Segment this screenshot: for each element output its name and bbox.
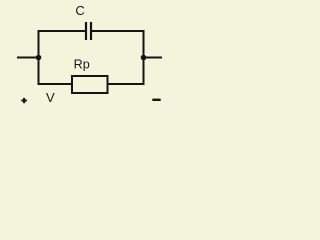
svg-text:C: C <box>75 3 84 18</box>
wire: left terminal stub <box>17 57 39 59</box>
wire: right vertical branch <box>143 30 145 85</box>
junction node left <box>36 55 42 61</box>
capacitor C <box>86 22 91 40</box>
wire: bottom rail right segment <box>108 83 145 85</box>
wire: right terminal stub <box>144 57 163 59</box>
svg-text:Rp: Rp <box>74 58 90 72</box>
wire: left vertical branch <box>38 30 40 85</box>
wire: bottom rail left segment <box>38 83 73 85</box>
svg-text:V: V <box>46 90 55 105</box>
junction node right <box>141 55 147 61</box>
wire: top rail right segment <box>92 30 145 32</box>
wire: top rail left segment <box>38 30 86 32</box>
resistor Rp <box>72 76 108 93</box>
polarity + <box>21 98 26 103</box>
polarity - <box>152 99 160 101</box>
